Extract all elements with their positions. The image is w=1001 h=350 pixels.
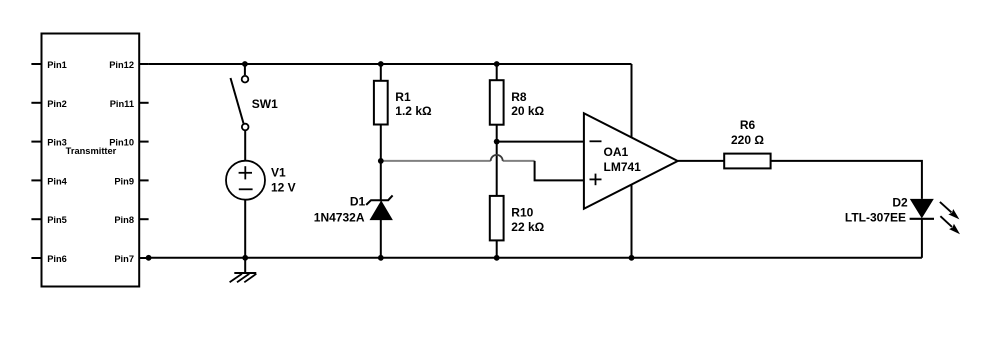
label V1 12 V — [271, 165, 296, 194]
svg-text:R10: R10 — [511, 206, 533, 220]
svg-text:1.2 kΩ: 1.2 kΩ — [395, 104, 432, 118]
label R1 1.2 kOhm — [395, 90, 432, 118]
junction Pin7 — [146, 255, 152, 261]
svg-text:Pin7: Pin7 — [114, 254, 134, 264]
svg-text:22 kΩ: 22 kΩ — [511, 220, 544, 234]
junction top R1 — [378, 61, 384, 67]
svg-text:Pin9: Pin9 — [114, 176, 134, 186]
label OA1 LM741 — [604, 145, 642, 174]
svg-text:Pin2: Pin2 — [47, 99, 67, 109]
junction bottom R10 — [494, 255, 500, 261]
pin Pin2 — [31, 99, 66, 109]
pin Pin12 — [109, 60, 148, 70]
svg-text:D2: D2 — [892, 195, 908, 209]
wire R1 top — [380, 64, 382, 81]
wire V1 to rail — [244, 199, 246, 257]
wire R1 to D1 — [380, 125, 382, 202]
svg-text:1N4732A: 1N4732A — [314, 211, 365, 225]
svg-text:LTL-307EE: LTL-307EE — [845, 211, 906, 225]
pin Pin6 — [31, 254, 66, 264]
svg-text:Transmitter: Transmitter — [66, 146, 117, 156]
ground — [230, 258, 257, 283]
svg-text:V1: V1 — [271, 165, 286, 179]
wire top rail — [149, 63, 632, 65]
svg-text:220 Ω: 220 Ω — [731, 133, 764, 147]
pin Pin7 — [114, 254, 148, 264]
wire LED to rail — [921, 219, 923, 258]
junction inverting at R8 — [494, 139, 500, 145]
label R8 20 kOhm — [511, 90, 544, 118]
label R10 22 kOhm — [511, 206, 544, 234]
wire switch to V1 — [244, 131, 246, 161]
svg-text:Pin4: Pin4 — [47, 176, 67, 186]
wire inverting input — [497, 141, 584, 143]
wire to non-inverting input — [535, 161, 584, 181]
wire R8 to R10 — [496, 125, 498, 196]
svg-text:SW1: SW1 — [252, 97, 278, 111]
label R6 220 Ohm — [731, 118, 764, 147]
wire gray net with hop — [381, 160, 491, 162]
wire op-amp V- to rail — [631, 185, 633, 258]
svg-text:Pin6: Pin6 — [47, 254, 67, 264]
svg-text:D1: D1 — [350, 195, 366, 209]
wire switch top — [244, 64, 246, 75]
junction bottom D1 — [378, 255, 384, 261]
resistor R1 — [374, 81, 388, 125]
pin Pin10 — [109, 138, 148, 148]
svg-text:R8: R8 — [511, 90, 527, 104]
junction bottom V1 — [242, 255, 248, 261]
wire R10 to rail — [496, 240, 498, 257]
svg-text:Pin1: Pin1 — [47, 60, 67, 70]
wire R8 top — [496, 64, 498, 80]
junction top switch — [242, 61, 248, 67]
switch SW1 — [231, 76, 249, 130]
svg-text:Pin12: Pin12 — [109, 60, 134, 70]
pin Pin4 — [31, 176, 67, 186]
resistor R8 — [490, 80, 504, 125]
svg-text:LM741: LM741 — [604, 160, 642, 174]
svg-text:OA1: OA1 — [604, 145, 629, 159]
pin Pin5 — [31, 215, 66, 225]
label D2 LTL-307EE — [845, 195, 908, 224]
resistor R6 — [724, 154, 770, 169]
wire op-amp V+ drop — [631, 64, 633, 138]
svg-text:R6: R6 — [740, 118, 756, 132]
wire bottom rail — [149, 257, 922, 259]
LED D2 — [910, 199, 934, 218]
svg-text:Pin3: Pin3 — [47, 138, 67, 148]
svg-text:Pin8: Pin8 — [114, 215, 134, 225]
source V1 — [226, 161, 265, 200]
op-amp OA1 — [584, 113, 678, 209]
svg-text:Pin10: Pin10 — [109, 138, 134, 148]
pin Pin8 — [114, 215, 148, 225]
diode D1 zener — [366, 195, 392, 219]
pin Pin1 — [31, 60, 66, 70]
wire R6 to corner — [771, 161, 922, 199]
label D1 1N4732A — [314, 195, 366, 225]
svg-text:Pin11: Pin11 — [110, 99, 134, 109]
resistor R10 — [490, 196, 504, 241]
pin Pin3 — [31, 138, 66, 148]
LED arrows — [940, 202, 960, 234]
svg-text:Pin5: Pin5 — [47, 215, 67, 225]
svg-text:R1: R1 — [395, 90, 411, 104]
pin Pin11 — [110, 99, 149, 109]
wire D1 to rail — [380, 220, 382, 258]
pin Pin9 — [114, 176, 148, 186]
junction bottom op-amp — [629, 255, 635, 261]
wire op-amp output — [678, 160, 725, 162]
svg-text:20 kΩ: 20 kΩ — [511, 104, 544, 118]
junction gray net at R1 — [378, 158, 384, 164]
junction top R8 — [494, 61, 500, 67]
svg-text:12 V: 12 V — [271, 181, 296, 195]
transmitter box — [42, 34, 140, 287]
